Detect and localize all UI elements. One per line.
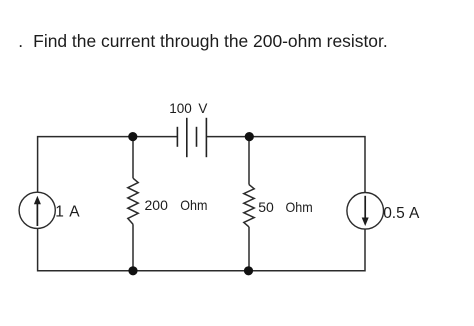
svg-text:1: 1 [55,203,64,220]
node bottom-left junction [128,266,137,275]
battery V1 [177,118,206,157]
resistor R1 200 Ohm [128,137,138,271]
svg-text:Ohm: Ohm [180,197,207,213]
title text [18,31,388,51]
wire top segment right (battery to top-right corner) [206,137,365,192]
svg-text:V: V [198,101,207,116]
label 1 A [55,203,80,220]
current source I2 (0.5 A, arrow down) [347,193,384,230]
node bottom-right junction [244,266,253,275]
wire top segment left (top-left corner to battery) [38,137,178,192]
label 50 Ohm [258,199,313,215]
wire stub from R2 to bottom node [248,227,250,271]
svg-text:Ohm: Ohm [286,199,313,215]
wire stub from top node to R1 [132,137,134,179]
wire stub from R1 to bottom node [132,224,134,271]
node top-left junction [128,132,137,141]
current source I1 (1 A, arrow up) [19,192,55,228]
node top-right junction [245,132,254,141]
wire stub from top node to R2 [248,137,250,185]
label 100 V [169,101,207,116]
svg-text:.: . [18,31,23,51]
svg-text:50: 50 [258,199,274,215]
svg-text:0.5 A: 0.5 A [383,205,420,222]
svg-text:A: A [69,203,80,220]
resistor R2 50 Ohm [244,137,254,271]
wire bottom segment [38,229,365,271]
svg-text:200: 200 [145,197,169,213]
label 200 Ohm [145,197,208,213]
svg-text:Find the current through the 2: Find the current through the 200-ohm res… [33,31,388,51]
svg-text:100: 100 [169,101,192,116]
